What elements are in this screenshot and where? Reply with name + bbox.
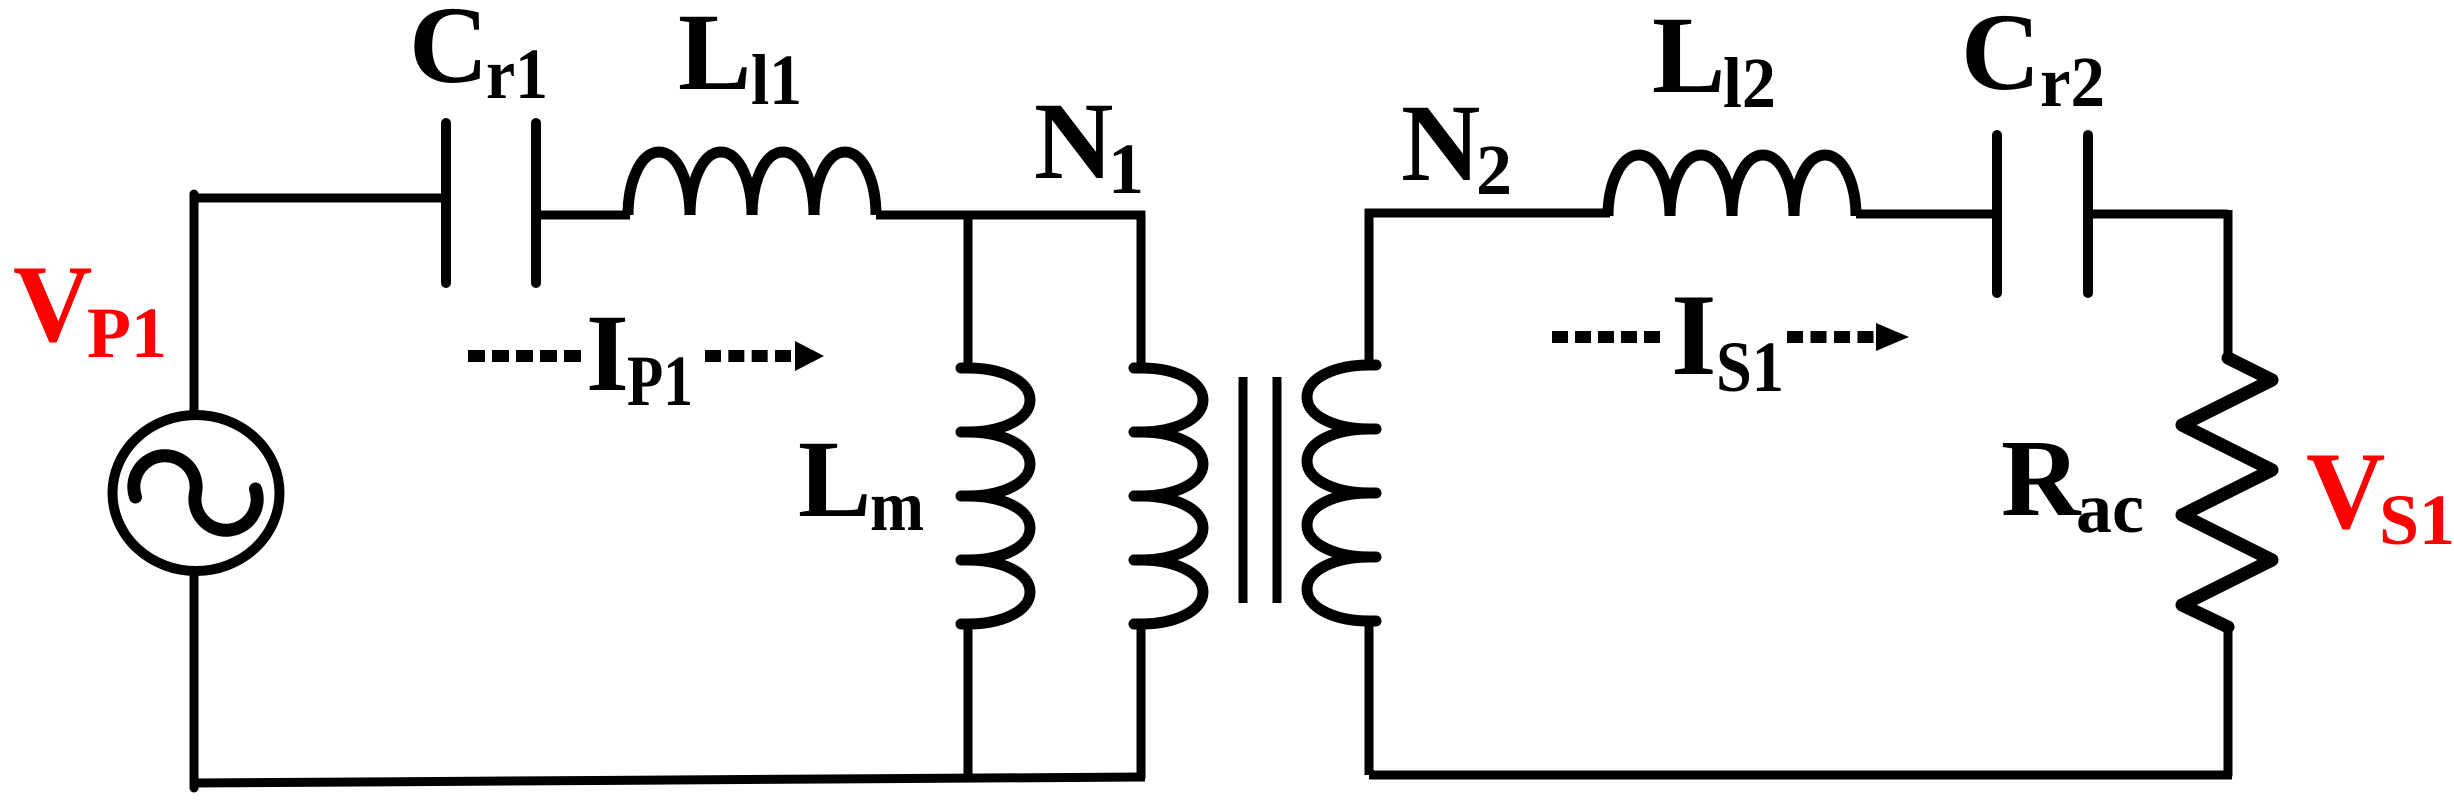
transformer core line right bbox=[1273, 377, 1282, 603]
svg-text:I: I bbox=[586, 292, 629, 414]
wire Lm top tap vertical bbox=[964, 211, 973, 367]
capacitor C1 right plate bbox=[531, 123, 541, 283]
svg-text:N: N bbox=[1034, 80, 1113, 202]
wire top-left horizontal from source branch to Cr1 bbox=[194, 194, 446, 203]
svg-text:L: L bbox=[678, 0, 751, 113]
svg-text:R: R bbox=[2001, 417, 2082, 539]
svg-text:V: V bbox=[2306, 430, 2385, 552]
wire N1 bottom vertical bbox=[1137, 624, 1146, 779]
wire Ll1 to node N1 bbox=[876, 211, 1145, 220]
inductor L1 (Ll1) bbox=[628, 152, 876, 215]
wire Cr2 to right corner bbox=[2088, 210, 2228, 219]
wire bottom primary horizontal bbox=[194, 777, 1145, 783]
svg-text:ac: ac bbox=[2076, 468, 2144, 548]
svg-text:L: L bbox=[1652, 0, 1725, 116]
svg-text:S1: S1 bbox=[2379, 480, 2454, 560]
svg-text:I: I bbox=[1671, 271, 1717, 400]
wire left vertical lower bbox=[190, 574, 199, 788]
current arrow Is1 dashed left segment bbox=[1552, 331, 1663, 343]
resistor Rac zigzag bbox=[2182, 358, 2272, 627]
svg-text:r2: r2 bbox=[2040, 42, 2105, 122]
wire right vertical upper bbox=[2224, 210, 2233, 358]
current arrow Is1 arrowhead bbox=[1876, 323, 1909, 351]
svg-text:l2: l2 bbox=[1723, 43, 1776, 123]
svg-text:V: V bbox=[13, 243, 92, 365]
capacitor C2 right plate bbox=[2083, 135, 2093, 293]
transformer primary winding N1 bbox=[1134, 368, 1203, 624]
svg-text:S1: S1 bbox=[1716, 327, 1784, 407]
wire bottom secondary horizontal bbox=[1369, 771, 2232, 780]
wire N1 top vertical drop bbox=[1137, 211, 1146, 367]
AC source V1 circle bbox=[113, 415, 280, 571]
capacitor C2 left plate bbox=[1992, 135, 2002, 293]
wire right vertical lower bbox=[2224, 627, 2233, 775]
svg-text:r1: r1 bbox=[486, 34, 548, 114]
inductor L2 (Ll2) bbox=[1608, 155, 1856, 216]
svg-text:N: N bbox=[1401, 82, 1480, 204]
wire N2 bottom vertical bbox=[1365, 621, 1374, 775]
svg-text:P1: P1 bbox=[87, 293, 167, 373]
wire secondary top horizontal to Ll2 bbox=[1365, 209, 1610, 218]
current arrow Ip1 dashed right segment bbox=[705, 350, 793, 362]
transformer secondary winding N2 bbox=[1307, 365, 1376, 621]
svg-text:m: m bbox=[870, 466, 924, 546]
current arrow Is1 dashed right segment bbox=[1787, 331, 1874, 343]
inductor Lm coil bbox=[961, 368, 1030, 624]
wire left vertical upper (Vp1 branch) bbox=[190, 194, 199, 412]
AC source sine symbol bbox=[134, 456, 257, 531]
svg-text:1: 1 bbox=[1108, 129, 1144, 209]
svg-text:2: 2 bbox=[1476, 130, 1512, 210]
svg-text:L: L bbox=[798, 418, 871, 540]
wire Cr1 to Ll1 bbox=[536, 211, 630, 220]
current arrow Ip1 arrowhead bbox=[795, 341, 824, 371]
svg-text:C: C bbox=[409, 0, 488, 106]
svg-text:C: C bbox=[1961, 0, 2040, 113]
wire N2 top vertical bbox=[1365, 209, 1374, 364]
current arrow Ip1 dashed left segment bbox=[468, 350, 582, 362]
svg-text:l1: l1 bbox=[751, 40, 802, 120]
wire Ll2 to Cr2 bbox=[1856, 210, 1997, 219]
capacitor C1 left plate bbox=[441, 123, 451, 283]
wire Lm bottom vertical bbox=[964, 624, 973, 779]
svg-text:P1: P1 bbox=[627, 341, 693, 421]
transformer core line left bbox=[1239, 377, 1248, 603]
